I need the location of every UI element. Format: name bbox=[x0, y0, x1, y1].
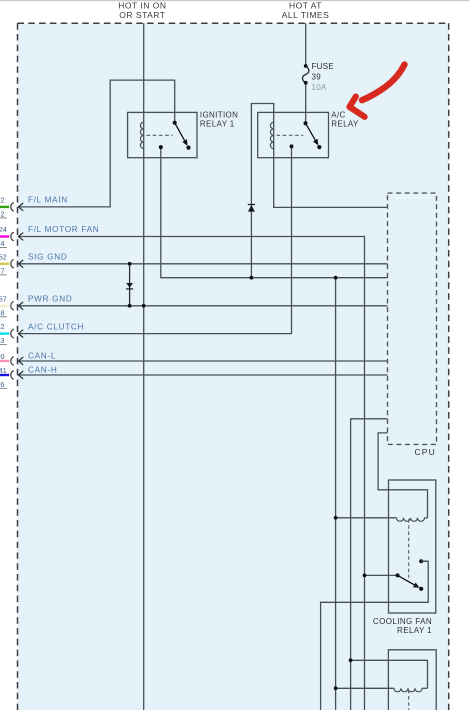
A/C relay coil bbox=[270, 122, 273, 148]
svg-text:SIG GND: SIG GND bbox=[28, 253, 67, 262]
connector A/C CLUTCH: colored wire stub bbox=[0, 332, 9, 334]
wire: relay1 coil left to return line bbox=[336, 517, 397, 519]
wire: HOT AT ALL TIMES feed to fuse bbox=[305, 23, 307, 65]
relay1 arm contact bbox=[419, 587, 423, 591]
junction diode bottom on PWR GND bbox=[128, 304, 132, 308]
connector A/C CLUTCH: arrowhead bbox=[19, 330, 24, 338]
connector F/L MOTOR FAN: arrowhead bbox=[19, 233, 24, 241]
wire: relay2 coil feed bbox=[351, 660, 428, 688]
wire: relay1 switch feed from motor fan line bbox=[365, 574, 398, 576]
connector F/L MAIN: colored wire stub bbox=[0, 206, 9, 208]
wire: A/C relay coil through box down to CPU pin bbox=[274, 112, 388, 207]
wire: F/L MOTOR FAN down to cooling fan relays bbox=[18, 237, 364, 710]
svg-text:3: 3 bbox=[0, 336, 4, 345]
connector SIG GND: colored wire stub bbox=[0, 263, 9, 265]
ignition relay link bbox=[147, 134, 173, 136]
junction relay1 coil on return line bbox=[334, 516, 338, 520]
label HOT AT / ALL TIMES bbox=[282, 1, 330, 21]
wire: relay2 coil straight segment bbox=[422, 687, 428, 689]
wire: SIG GND to CPU bbox=[18, 263, 387, 265]
wire: A/C relay coil top jog bbox=[251, 104, 273, 278]
wire: A/C CLUTCH from A/C relay output bbox=[18, 157, 291, 333]
cooling fan relay 1 box bbox=[389, 480, 436, 613]
connector CAN-L: arrowhead bbox=[19, 357, 24, 365]
svg-text:2: 2 bbox=[0, 322, 4, 331]
svg-text:RELAY 1: RELAY 1 bbox=[397, 626, 432, 635]
junction ignition coil return on PWR GND bbox=[142, 304, 146, 308]
svg-text:RELAY 1: RELAY 1 bbox=[200, 120, 235, 129]
wire: ignition relay output to CPU bbox=[161, 147, 388, 278]
svg-text:RELAY: RELAY bbox=[331, 120, 359, 129]
wire: relay1 contact A out and down-left bbox=[321, 561, 429, 710]
connector F/L MAIN: arrowhead bbox=[19, 203, 24, 211]
wire: CPU pin to cooling fan relay 2 coil feed bbox=[351, 419, 388, 710]
wire: relay2 coil left to return line bbox=[336, 687, 394, 689]
relay1 output contact bbox=[419, 559, 423, 563]
A/C relay link bbox=[277, 134, 304, 136]
svg-text:CAN-H: CAN-H bbox=[28, 366, 57, 375]
connector F/L MOTOR FAN: colored wire stub bbox=[0, 235, 9, 237]
diode on A/C relay coil branch bbox=[248, 204, 255, 212]
svg-text:HOT IN ON: HOT IN ON bbox=[118, 1, 166, 11]
A/C relay arm bbox=[306, 123, 316, 140]
svg-text:CPU: CPU bbox=[414, 447, 436, 457]
A/C relay output contact bbox=[290, 144, 294, 148]
wire: HOT IN ON feed down through ignition relay coil to bottom bbox=[143, 23, 145, 710]
svg-text:2: 2 bbox=[0, 210, 4, 219]
connector CAN-L: plug arc bbox=[11, 357, 14, 366]
svg-text:4: 4 bbox=[0, 239, 4, 248]
A/C relay common bbox=[304, 121, 308, 125]
junction relay2 coil on return line bbox=[334, 686, 338, 690]
svg-text:HOT AT: HOT AT bbox=[289, 1, 322, 11]
svg-text:2: 2 bbox=[0, 196, 4, 205]
connector F/L MAIN: plug arc bbox=[11, 203, 14, 212]
cooling fan relay 2 box bbox=[388, 650, 436, 710]
junction relay1 switch feed on motor fan line bbox=[363, 574, 367, 578]
wire: CAN-L to CPU bbox=[18, 360, 387, 362]
svg-text:7: 7 bbox=[0, 266, 4, 275]
wire: A/C relay output contact into box bbox=[291, 146, 293, 157]
connector A/C CLUTCH: plug arc bbox=[11, 329, 14, 338]
junction coils return on relay output line bbox=[334, 276, 338, 280]
svg-text:F/L MAIN: F/L MAIN bbox=[28, 196, 68, 205]
diode between SIG GND and PWR GND bbox=[129, 264, 131, 306]
ignition relay coil bbox=[140, 122, 143, 148]
wire: PWR GND to CPU bbox=[18, 305, 387, 307]
ignition relay NC contact bbox=[186, 146, 190, 150]
svg-text:52: 52 bbox=[0, 252, 7, 261]
svg-text:57: 57 bbox=[0, 294, 7, 303]
wire: fuse to A/C relay common bbox=[305, 83, 307, 123]
fuse bottom terminal bbox=[304, 81, 308, 85]
connector CAN-L: colored wire stub bbox=[0, 360, 9, 362]
svg-text:COOLING FAN: COOLING FAN bbox=[373, 617, 432, 626]
junction relay2 coil feed bbox=[349, 658, 353, 662]
svg-text:OR START: OR START bbox=[119, 10, 165, 20]
connector CAN-H: arrowhead bbox=[19, 371, 24, 379]
fuse top terminal bbox=[304, 64, 308, 68]
connector PWR GND: colored wire stub bbox=[0, 305, 9, 307]
connector SIG GND: arrowhead bbox=[19, 260, 24, 268]
svg-text:IGNITION: IGNITION bbox=[200, 110, 238, 119]
connector SIG GND: plug arc bbox=[11, 260, 14, 269]
connector PWR GND: arrowhead bbox=[19, 302, 24, 310]
connector CAN-H: colored wire stub bbox=[0, 374, 9, 376]
ignition relay 1 box bbox=[128, 112, 197, 157]
relay1 output contact stub bbox=[421, 560, 428, 562]
wire: CAN-H to CPU bbox=[18, 374, 387, 376]
svg-text:A/C CLUTCH: A/C CLUTCH bbox=[28, 322, 84, 331]
relay2 link bbox=[408, 690, 410, 710]
svg-text:6: 6 bbox=[0, 380, 4, 389]
svg-text:24: 24 bbox=[0, 225, 7, 234]
A/C relay box bbox=[258, 112, 329, 157]
wire: F/L MAIN to ignition relay switch bbox=[18, 80, 174, 207]
relay1 link bbox=[408, 519, 410, 578]
wire: relay1 coil straight segment bbox=[425, 517, 428, 519]
fuse 39 symbol bbox=[302, 66, 308, 83]
svg-text:PWR GND: PWR GND bbox=[28, 295, 72, 304]
connector CAN-H: plug arc bbox=[11, 371, 14, 380]
top browser edge line bbox=[0, 0, 469, 1]
svg-text:41: 41 bbox=[0, 366, 7, 375]
junction diode top on SIG GND bbox=[128, 262, 132, 266]
svg-text:39: 39 bbox=[312, 72, 322, 81]
CPU dashed box bbox=[388, 193, 437, 444]
cooling fan relay 2 coil bbox=[394, 688, 422, 692]
ignition relay common bbox=[173, 121, 177, 125]
svg-text:ALL TIMES: ALL TIMES bbox=[282, 10, 330, 20]
svg-text:A/C: A/C bbox=[331, 110, 345, 119]
connector PWR GND: plug arc bbox=[11, 302, 14, 311]
svg-text:CAN-L: CAN-L bbox=[28, 352, 56, 361]
A/C relay NC contact bbox=[317, 145, 321, 149]
svg-text:8: 8 bbox=[0, 308, 4, 317]
wire: cooling fan relay coils return line bbox=[335, 278, 337, 710]
junction A/C coil branch on relay output line bbox=[250, 276, 254, 280]
svg-text:0: 0 bbox=[0, 352, 4, 361]
label HOT IN ON / OR START bbox=[118, 1, 166, 21]
red annotation arrow pointing at A/C relay bbox=[350, 65, 405, 117]
relay1 common bbox=[396, 573, 400, 577]
ignition relay arm bbox=[175, 123, 185, 141]
cooling fan relay 1 arm bbox=[398, 575, 415, 584]
wire: CPU pin to cooling fan relay 1 coil feed bbox=[378, 433, 427, 518]
svg-text:F/L MOTOR FAN: F/L MOTOR FAN bbox=[28, 225, 99, 234]
svg-text:FUSE: FUSE bbox=[312, 62, 335, 71]
cooling fan relay 1 coil bbox=[397, 518, 425, 522]
ignition relay output contact bbox=[159, 145, 163, 149]
svg-text:10A: 10A bbox=[312, 83, 327, 92]
connector F/L MOTOR FAN: plug arc bbox=[11, 232, 14, 241]
